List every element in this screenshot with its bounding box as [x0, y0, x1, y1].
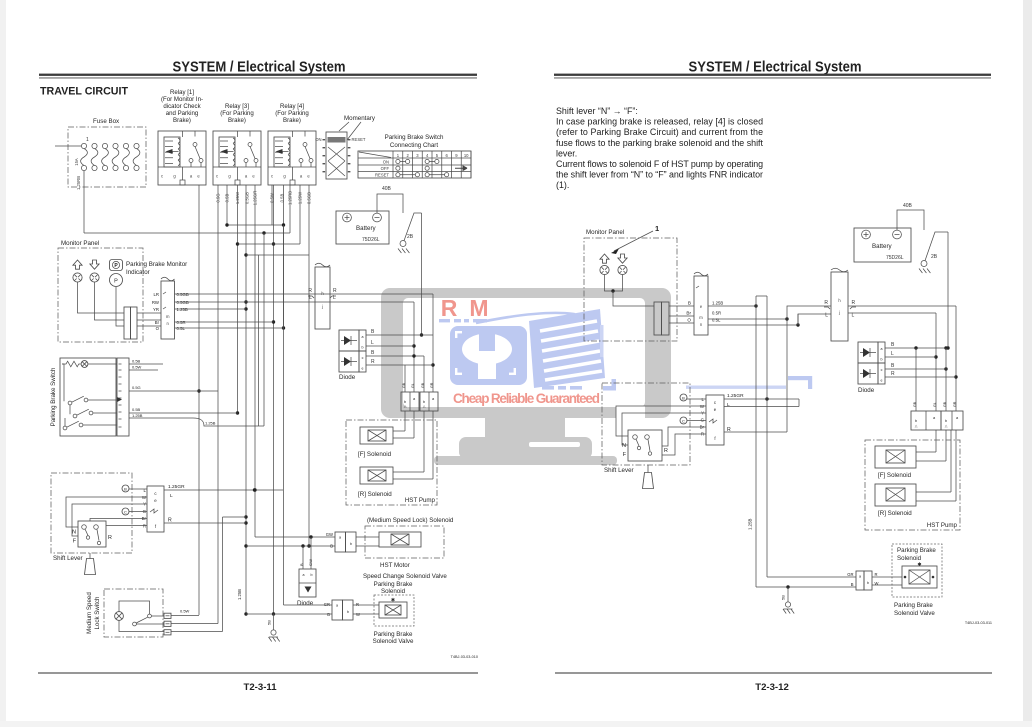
svg-text:1.25GR: 1.25GR: [168, 484, 185, 490]
verticals to pump connector right: [915, 348, 917, 411]
speed change connector: [335, 532, 346, 552]
relay labels: [161, 89, 309, 124]
svg-text:0.5GB: 0.5GB: [177, 292, 189, 297]
svg-text:(Medium Speed Lock) Solenoid: (Medium Speed Lock) Solenoid: [367, 517, 454, 524]
svg-text:Battery: Battery: [872, 243, 893, 250]
svg-text:Brake): Brake): [173, 117, 191, 124]
svg-text:RESET: RESET: [375, 173, 389, 178]
svg-text:Momentary: Momentary: [344, 115, 376, 122]
svg-text:RW: RW: [152, 300, 160, 305]
svg-text:[R] Solenoid: [R] Solenoid: [358, 491, 392, 498]
pb valve connector right: [856, 571, 864, 590]
fuse F2: [92, 143, 97, 148]
[F] solenoid right: [875, 446, 916, 468]
svg-text:T4BJ-03-03-010: T4BJ-03-03-010: [451, 655, 478, 659]
svg-text:0.5GB: 0.5GB: [245, 192, 250, 204]
watermark: RM monitor logo: [381, 288, 812, 465]
svg-text:C: C: [124, 510, 127, 515]
wire: relay3 drops: [217, 185, 219, 624]
wrench badge: [450, 326, 527, 385]
svg-text:L: L: [170, 493, 173, 499]
svg-text:Shift lever “N” → “F”:: Shift lever “N” → “F”:: [556, 106, 638, 116]
svg-text:[F] Solenoid: [F] Solenoid: [878, 472, 912, 479]
rows out right of h/j: [848, 305, 956, 307]
rows out of e/m/n: [708, 305, 756, 307]
wire: fuse 1 drop: [83, 171, 85, 233]
svg-text:m: m: [166, 314, 170, 319]
svg-text:Monitor Panel: Monitor Panel: [61, 240, 99, 247]
svg-text:5B: 5B: [267, 620, 272, 625]
pump connector left: [401, 392, 419, 411]
svg-text:R: R: [356, 602, 359, 607]
svg-text:a: a: [362, 335, 364, 339]
svg-text:1.25B: 1.25B: [177, 307, 188, 312]
svg-text:Indicator: Indicator: [126, 269, 150, 276]
svg-text:GB: GB: [402, 382, 406, 388]
svg-text:R: R: [664, 448, 668, 454]
svg-text:a: a: [339, 536, 341, 540]
wire: 40B: [897, 210, 924, 230]
switch contacts: [68, 401, 72, 405]
shift lever left: [51, 473, 132, 553]
svg-text:Diode: Diode: [339, 374, 356, 381]
svg-text:lever.: lever.: [556, 148, 577, 158]
svg-text:Relay [4]: Relay [4]: [280, 103, 304, 110]
monitor stand: [485, 417, 565, 440]
svg-text:b: b: [404, 400, 406, 404]
wire: v222.5 + row517: [223, 517, 247, 632]
wire: feed into fuse box: [55, 145, 81, 147]
svg-text:b: b: [311, 573, 313, 577]
blue dashes under RM: [439, 319, 487, 322]
svg-text:2B: 2B: [407, 234, 414, 240]
fuse box: [68, 127, 146, 187]
svg-text:Solenoid Valve: Solenoid Valve: [373, 638, 414, 645]
svg-text:T4BJ-03-03-011: T4BJ-03-03-011: [965, 621, 992, 625]
svg-text:a: a: [336, 604, 338, 608]
svg-text:c: c: [271, 174, 273, 179]
connector e/m/n right: [694, 276, 708, 335]
svg-text:0.5W: 0.5W: [132, 365, 142, 370]
svg-text:b: b: [915, 419, 917, 423]
svg-text:0.5R: 0.5R: [177, 320, 186, 325]
svg-text:1.25B: 1.25B: [712, 301, 723, 306]
svg-text:R: R: [875, 572, 878, 577]
connector h/j left: [315, 267, 330, 329]
svg-text:Diode: Diode: [297, 600, 314, 607]
svg-text:M: M: [469, 295, 488, 321]
svg-text:1.25B: 1.25B: [132, 413, 143, 418]
svg-text:75D26L: 75D26L: [362, 237, 380, 243]
svg-text:Parking Brake: Parking Brake: [897, 547, 936, 554]
feed row y233 from fuse: [84, 232, 290, 234]
svg-text:ON: ON: [315, 137, 321, 142]
svg-text:P: P: [114, 278, 118, 284]
shift lever internal wires: [129, 488, 147, 490]
svg-text:B: B: [682, 396, 685, 401]
wire: v948: [947, 232, 949, 348]
svg-text:Brake): Brake): [283, 117, 301, 124]
svg-text:Diode: Diode: [858, 387, 875, 394]
svg-text:j: j: [321, 304, 323, 309]
wires: monitor rows out: [175, 293, 434, 295]
HST pump right: [865, 440, 960, 530]
svg-text:(refer to Parking Brake Circui: (refer to Parking Brake Circuit) and cur…: [556, 127, 763, 137]
wire: v264: [263, 233, 265, 426]
svg-text:ON: ON: [383, 160, 389, 165]
wire: 40B battery negative feed: [377, 194, 403, 213]
svg-text:GL: GL: [411, 383, 415, 388]
blue swoosh: [476, 313, 577, 323]
svg-text:G: G: [701, 418, 705, 423]
svg-text:Parking Brake Switch: Parking Brake Switch: [50, 367, 57, 426]
svg-text:a: a: [303, 573, 305, 577]
svg-text:HST Pump: HST Pump: [927, 522, 958, 529]
connector h/j right: [831, 272, 848, 341]
diode block left: [339, 330, 359, 351]
wire: v283: [283, 225, 285, 605]
svg-text:[F] Solenoid: [F] Solenoid: [358, 451, 392, 458]
svg-text:c: c: [881, 368, 883, 372]
diode block right: [858, 342, 878, 363]
svg-text:L: L: [371, 340, 374, 346]
svg-text:0.5L: 0.5L: [177, 326, 186, 331]
rows into pb valve connector: [284, 604, 333, 606]
svg-text:Solenoid Valve: Solenoid Valve: [894, 610, 935, 617]
down arrow indicator: [90, 260, 99, 269]
svg-text:R: R: [108, 535, 112, 541]
svg-text:In case parking brake is relea: In case parking brake is released, relay…: [556, 117, 763, 127]
svg-text:B: B: [299, 563, 304, 566]
svg-text:1.25RB: 1.25RB: [76, 176, 81, 190]
svg-text:a: a: [881, 347, 883, 351]
svg-text:R: R: [333, 288, 337, 294]
svg-text:B: B: [327, 612, 330, 617]
svg-text:b: b: [347, 610, 349, 614]
svg-text:R: R: [143, 524, 146, 529]
lamp 2: [90, 273, 99, 282]
[R] solenoid right: [875, 484, 916, 506]
connector c/e/f right: [706, 395, 724, 445]
lamp 1: [600, 265, 609, 274]
svg-text:Relay [3]: Relay [3]: [225, 103, 249, 110]
svg-text:B: B: [124, 487, 127, 492]
svg-text:75D26L: 75D26L: [886, 255, 904, 261]
svg-text:TRAVEL CIRCUIT: TRAVEL CIRCUIT: [40, 86, 128, 98]
svg-text:YR: YR: [153, 307, 159, 312]
svg-text:✱: ✱: [391, 598, 395, 604]
svg-text:T2-3-11: T2-3-11: [243, 682, 277, 693]
svg-text:R: R: [824, 300, 828, 306]
svg-text:Parking Brake: Parking Brake: [894, 602, 933, 609]
svg-text:fuse flows to the parking brak: fuse flows to the parking brake solenoid…: [556, 138, 764, 148]
ground symbol right: [783, 609, 794, 614]
page edge shading: [0, 0, 6, 727]
svg-text:Br: Br: [686, 311, 691, 316]
svg-text:(For Monitor In-: (For Monitor In-: [161, 96, 203, 103]
svg-text:T2-3-12: T2-3-12: [755, 682, 789, 693]
wires below connector into pump: [936, 430, 956, 501]
svg-text:R: R: [308, 288, 312, 294]
svg-text:B: B: [851, 582, 854, 587]
battery left: [336, 211, 389, 244]
jog row y255: [246, 254, 309, 256]
svg-text:O: O: [687, 318, 691, 323]
pb valve connector: [332, 600, 343, 620]
svg-text:△: △: [404, 405, 407, 409]
fuse F1: [81, 143, 86, 148]
wire: v936 v956: [935, 313, 937, 411]
lamp 1: [73, 273, 82, 282]
svg-text:b: b: [423, 400, 425, 404]
svg-text:the shift lever from “N” to “F: the shift lever from “N” to “F” and ligh…: [556, 170, 763, 180]
svg-text:R: R: [371, 359, 375, 365]
svg-text:△: △: [915, 424, 918, 428]
wire: v421.5 battery feed down: [421, 213, 423, 335]
svg-text:Shift Lever: Shift Lever: [604, 467, 634, 474]
ground under switch right: [919, 269, 930, 274]
svg-text:GR: GR: [430, 382, 434, 388]
P indicator icon: [110, 260, 123, 271]
svg-text:Speed Change Solenoid Valve: Speed Change Solenoid Valve: [363, 573, 447, 580]
svg-text:2B: 2B: [931, 254, 938, 260]
svg-text:Shift Lever: Shift Lever: [53, 555, 83, 562]
wires: pump connector stubs: [404, 411, 406, 431]
svg-text:Cheap Reliable Guaranteed: Cheap Reliable Guaranteed: [453, 391, 600, 406]
svg-text:Parking Brake Monitor: Parking Brake Monitor: [126, 261, 187, 268]
ground under switch: [398, 249, 409, 254]
jog row y225: [227, 224, 284, 226]
internal wires right shift lever: [687, 398, 706, 400]
small connector right panel: [654, 302, 662, 335]
tall connector left page (monitor out): [161, 281, 175, 339]
fuse F3: [102, 143, 107, 148]
svg-text:0.5B: 0.5B: [132, 359, 141, 364]
right page paragraph: [556, 106, 764, 190]
svg-text:Solenoid: Solenoid: [897, 555, 922, 562]
rows to parking brake solenoid right: [767, 576, 856, 578]
svg-text:e: e: [881, 379, 883, 383]
svg-text:GW: GW: [308, 559, 313, 566]
blue bracket fragments: [542, 376, 812, 391]
svg-text:△: △: [423, 405, 426, 409]
svg-text:Lock Switch: Lock Switch: [94, 596, 101, 630]
battery right: [854, 228, 911, 262]
shift lever knob right: [643, 473, 654, 489]
svg-text:Relay [1]: Relay [1]: [170, 89, 194, 96]
svg-text:Current flows to solenoid F of: Current flows to solenoid F of HST pump …: [556, 159, 763, 169]
svg-text:R: R: [168, 518, 172, 524]
relay [1] K1: [158, 131, 206, 185]
internal wires: [78, 282, 125, 326]
svg-text:HST Pump: HST Pump: [405, 497, 436, 504]
svg-text:0.5GB: 0.5GB: [177, 300, 189, 305]
svg-text:RESET: RESET: [352, 137, 366, 142]
fuse F6: [134, 143, 139, 148]
svg-text:GB: GB: [943, 401, 947, 407]
svg-text:c: c: [216, 174, 218, 179]
disconnect switch right: [921, 261, 927, 267]
svg-text:0.5W: 0.5W: [180, 609, 190, 614]
svg-text:Parking Brake: Parking Brake: [374, 631, 413, 638]
svg-text:j: j: [838, 310, 840, 315]
open book: [529, 309, 605, 388]
lamp 2: [618, 265, 627, 274]
wire: v798 from dot down to L U-turn: [797, 314, 799, 325]
svg-text:1.25B: 1.25B: [748, 518, 753, 530]
ground symbol: [269, 637, 280, 642]
svg-text:Br: Br: [155, 320, 160, 325]
[R] solenoid left: [360, 467, 393, 484]
svg-text:1: 1: [86, 137, 89, 143]
svg-text:c: c: [161, 174, 163, 179]
svg-text:GR: GR: [847, 572, 853, 577]
svg-text:b: b: [867, 581, 869, 585]
wire: v767 (1.25GR down): [766, 296, 768, 577]
svg-text:B: B: [330, 544, 333, 549]
svg-text:40B: 40B: [382, 186, 392, 192]
svg-text:dicator Check: dicator Check: [163, 103, 201, 110]
svg-text:e: e: [362, 367, 364, 371]
connector c/e/f left: [147, 486, 164, 532]
svg-text:L: L: [825, 313, 828, 319]
svg-text:L: L: [891, 351, 894, 357]
svg-text:GL: GL: [933, 402, 937, 407]
svg-text:Parking Brake Switch: Parking Brake Switch: [385, 134, 444, 141]
svg-text:△: △: [945, 424, 948, 428]
diode lower left: [299, 569, 316, 597]
svg-text:L: L: [727, 402, 730, 408]
svg-text:b: b: [350, 542, 352, 546]
svg-text:1.25B: 1.25B: [205, 421, 216, 426]
svg-text:✱: ✱: [917, 562, 921, 568]
svg-text:0.5B: 0.5B: [132, 407, 141, 412]
svg-text:Solenoid: Solenoid: [381, 588, 406, 595]
up arrow indicator: [73, 260, 82, 269]
svg-text:B: B: [688, 301, 691, 306]
svg-text:b: b: [945, 419, 947, 423]
wire: v756 (1.25B): [755, 296, 757, 587]
svg-text:SYSTEM / Electrical System: SYSTEM / Electrical System: [173, 59, 346, 76]
svg-text:(1).: (1).: [556, 180, 569, 190]
fuse F4: [113, 143, 118, 148]
svg-text:(For Parking: (For Parking: [275, 110, 309, 117]
svg-text:SYSTEM / Electrical System: SYSTEM / Electrical System: [689, 59, 862, 76]
svg-text:HST Motor: HST Motor: [380, 562, 410, 569]
svg-text:10: 10: [464, 153, 469, 158]
svg-text:[R] Solenoid: [R] Solenoid: [878, 510, 912, 517]
svg-text:N: N: [622, 443, 626, 449]
[F] solenoid left: [360, 427, 393, 444]
lamp wires: [605, 275, 623, 291]
wire: relay4 drops: [271, 185, 273, 225]
svg-text:Brake): Brake): [228, 117, 246, 124]
svg-text:R: R: [891, 371, 895, 377]
svg-text:a: a: [859, 575, 861, 579]
jog row y244: [238, 243, 301, 245]
svg-text:N: N: [72, 530, 76, 536]
rows to speed change connector: [255, 536, 335, 538]
small connector in monitor panel: [124, 307, 131, 339]
svg-text:R: R: [441, 295, 458, 321]
svg-text:15A: 15A: [74, 158, 79, 166]
svg-text:GR: GR: [324, 602, 330, 607]
mesh verticals to diode/pump: [404, 365, 406, 392]
svg-text:5B: 5B: [781, 595, 786, 600]
svg-text:GR: GR: [953, 401, 957, 407]
svg-text:(For Parking: (For Parking: [220, 110, 254, 117]
svg-text:1.25GR: 1.25GR: [727, 393, 744, 399]
footers: [38, 673, 478, 674]
relay [3] K3: [213, 131, 261, 185]
svg-text:R: R: [852, 300, 856, 306]
svg-text:and Parking: and Parking: [166, 110, 199, 117]
rows from MSL switch: [171, 616, 223, 632]
svg-text:0.5L: 0.5L: [712, 318, 721, 323]
disconnect switch left: [400, 241, 406, 247]
svg-text:Monitor Panel: Monitor Panel: [586, 229, 624, 236]
svg-text:Parking Brake: Parking Brake: [374, 581, 413, 588]
svg-text:c: c: [362, 356, 364, 360]
relay [4] K4: [268, 131, 316, 185]
wire: diode2 feeds: [303, 537, 311, 569]
monitor bezel: [381, 288, 671, 418]
svg-text:Fuse Box: Fuse Box: [93, 118, 120, 125]
wire: bus x199 (relay1-e down to MSL switch): [198, 185, 200, 615]
svg-text:40B: 40B: [903, 203, 913, 209]
svg-text:OFF: OFF: [381, 166, 390, 171]
svg-text:b: b: [881, 358, 883, 362]
svg-text:m: m: [699, 315, 703, 320]
svg-text:W: W: [356, 612, 360, 617]
svg-text:b: b: [362, 346, 364, 350]
rows to e/m/n connector: [669, 306, 694, 323]
fuse F5: [123, 143, 128, 148]
svg-text:0.5G: 0.5G: [132, 385, 141, 390]
svg-text:C: C: [682, 419, 685, 424]
down arrow indicator: [618, 254, 627, 263]
svg-text:L: L: [852, 313, 855, 319]
svg-text:Medium Speed: Medium Speed: [86, 592, 93, 634]
up arrow indicator: [600, 254, 609, 263]
lamp with resistor: [62, 361, 80, 367]
svg-text:GB: GB: [421, 382, 425, 388]
svg-text:1: 1: [655, 224, 659, 233]
shift lever right: [602, 383, 690, 465]
svg-text:GW: GW: [326, 532, 333, 537]
svg-text:LR: LR: [154, 292, 160, 297]
jogs up into h/j: [787, 306, 831, 432]
svg-text:Battery: Battery: [356, 225, 377, 232]
svg-text:1.25B: 1.25B: [237, 589, 242, 600]
svg-text:0.5R: 0.5R: [712, 311, 721, 316]
HST pump left: [346, 420, 437, 505]
pump connector right: [911, 411, 941, 430]
shift lever knob: [85, 559, 96, 575]
svg-text:GB: GB: [913, 401, 917, 407]
svg-text:Connecting Chart: Connecting Chart: [390, 142, 438, 149]
